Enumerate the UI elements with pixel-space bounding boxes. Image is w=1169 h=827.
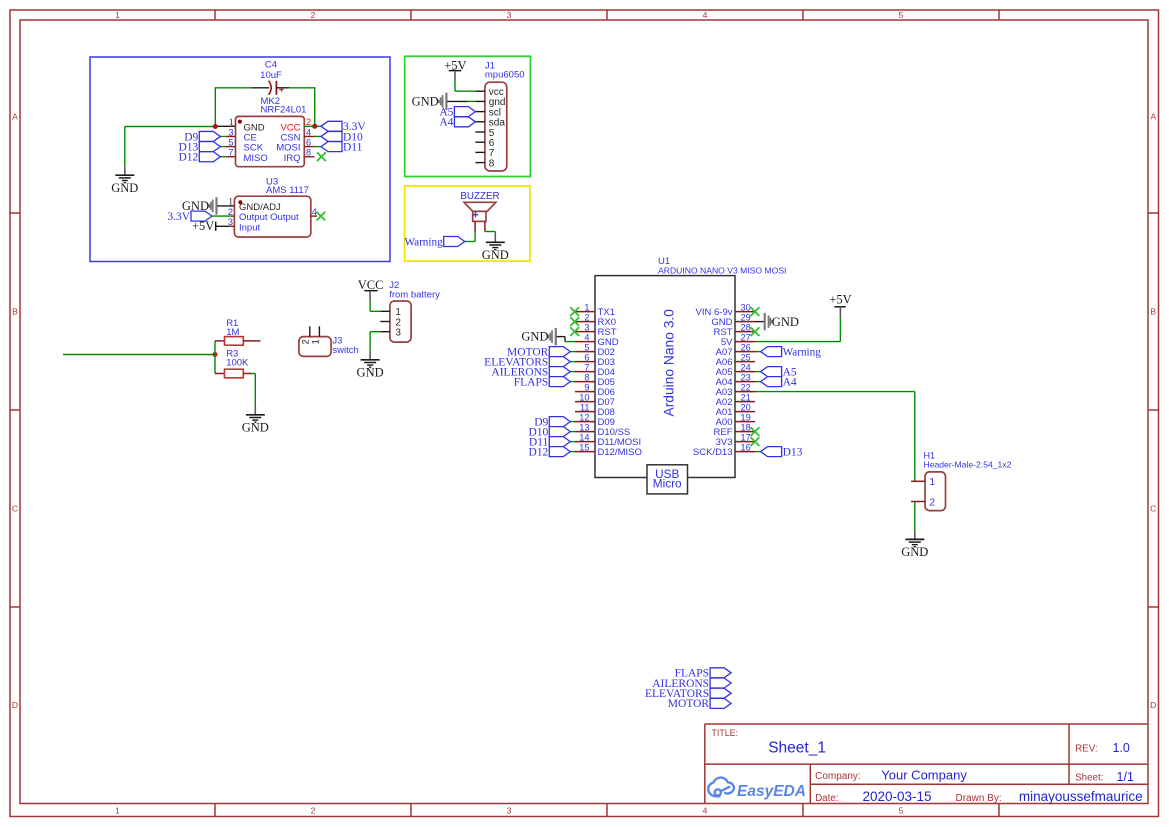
svg-text:BUZZER: BUZZER bbox=[460, 191, 499, 202]
svg-text:Drawn By:: Drawn By: bbox=[956, 793, 1002, 804]
svg-text:GND: GND bbox=[357, 365, 384, 379]
svg-text:1: 1 bbox=[311, 339, 321, 344]
svg-text:+5V: +5V bbox=[192, 219, 214, 233]
net flag FLAPS (floating) bbox=[710, 668, 731, 678]
group box radio module (blue) bbox=[90, 57, 390, 262]
svg-text:8: 8 bbox=[584, 373, 589, 383]
svg-text:12: 12 bbox=[579, 413, 589, 423]
svg-text:D12: D12 bbox=[528, 446, 548, 458]
svg-text:11: 11 bbox=[580, 403, 590, 413]
svg-text:Arduino Nano 3.0: Arduino Nano 3.0 bbox=[662, 309, 677, 417]
wire elevator input bbox=[63, 354, 215, 356]
module MK2 NRF24L01 body bbox=[236, 116, 305, 166]
svg-text:2: 2 bbox=[306, 117, 311, 127]
svg-text:6: 6 bbox=[306, 137, 311, 147]
svg-text:7: 7 bbox=[584, 363, 589, 373]
svg-text:Sheet_1: Sheet_1 bbox=[768, 739, 826, 756]
U3 pin 1 dot bbox=[238, 200, 242, 204]
wire GND to J1 gnd bbox=[468, 100, 476, 102]
svg-text:1: 1 bbox=[115, 806, 120, 816]
svg-text:mpu6050: mpu6050 bbox=[485, 70, 525, 81]
svg-text:4: 4 bbox=[584, 333, 589, 343]
MK2 pin 6 stub bbox=[304, 146, 314, 148]
svg-text:A4: A4 bbox=[783, 376, 797, 388]
svg-text:26: 26 bbox=[741, 343, 751, 353]
net flag 3.3V (MK2) bbox=[321, 121, 342, 131]
svg-text:5: 5 bbox=[899, 10, 904, 20]
net flag D9 (U1) bbox=[570, 421, 575, 423]
wire 3.3V to U3 pin2 bbox=[212, 215, 231, 217]
svg-text:29: 29 bbox=[741, 313, 751, 323]
power flag GND at U1 pin 4 bbox=[555, 328, 557, 345]
svg-text:ARDUINO NANO V3 MISO MOSI: ARDUINO NANO V3 MISO MOSI bbox=[658, 265, 786, 275]
svg-text:1.0: 1.0 bbox=[1113, 741, 1130, 755]
svg-text:1: 1 bbox=[115, 10, 120, 20]
resistor R3 bbox=[214, 355, 216, 374]
svg-text:GND: GND bbox=[901, 545, 928, 559]
svg-text:D12/MISO: D12/MISO bbox=[598, 447, 642, 458]
wire R3 to GND bbox=[251, 373, 255, 375]
MK2 pin 7 stub bbox=[225, 156, 235, 158]
svg-text:1: 1 bbox=[584, 303, 589, 313]
svg-text:4: 4 bbox=[312, 207, 317, 217]
svg-text:3: 3 bbox=[395, 328, 401, 339]
svg-text:D12: D12 bbox=[178, 152, 198, 164]
svg-text:3.3V: 3.3V bbox=[167, 211, 190, 223]
MK2 pin 1 dot bbox=[238, 120, 242, 124]
net flag Warning (buzzer) bbox=[444, 237, 465, 247]
no-connect X U1 pin 28 bbox=[751, 327, 760, 336]
wire J2 pin3 to GND bbox=[370, 331, 380, 333]
net flag Warning (U1) bbox=[755, 351, 761, 353]
connector J1 mpu6050 body bbox=[485, 82, 507, 171]
svg-text:10: 10 bbox=[579, 393, 589, 403]
svg-text:REV:: REV: bbox=[1075, 744, 1098, 755]
svg-text:4: 4 bbox=[703, 10, 708, 20]
svg-text:8: 8 bbox=[489, 158, 495, 169]
ground GND (R3) bbox=[254, 406, 256, 415]
svg-text:Company:: Company: bbox=[815, 771, 861, 782]
svg-text:switch: switch bbox=[332, 345, 358, 356]
svg-text:13: 13 bbox=[579, 423, 589, 433]
net flag FLAPS bbox=[570, 381, 575, 383]
net flag D9 bbox=[199, 131, 220, 141]
svg-text:SCK/D13: SCK/D13 bbox=[693, 447, 733, 458]
svg-text:Date:: Date: bbox=[815, 793, 838, 804]
svg-text:AMS 1117: AMS 1117 bbox=[266, 185, 309, 196]
MK2 pin 5 stub bbox=[225, 146, 235, 148]
svg-text:GND: GND bbox=[521, 329, 548, 343]
H1 pin stubs bbox=[911, 480, 925, 482]
net flag MOTOR (floating) bbox=[710, 698, 731, 708]
junction at MK2 pin1 bbox=[213, 124, 218, 129]
svg-text:17: 17 bbox=[741, 433, 751, 443]
svg-text:1: 1 bbox=[930, 477, 936, 488]
svg-text:25: 25 bbox=[741, 353, 751, 363]
svg-text:2: 2 bbox=[584, 313, 589, 323]
wire Warning to buzzer + bbox=[474, 232, 476, 242]
power flag GND at J1 gnd bbox=[445, 93, 447, 110]
capacitor C4 bbox=[252, 87, 269, 89]
svg-text:B: B bbox=[12, 307, 18, 317]
net flag AILERONS (floating) bbox=[710, 678, 731, 688]
connector J2 body bbox=[390, 301, 411, 342]
net flag A5 (J1 scl) bbox=[454, 107, 475, 117]
svg-text:100K: 100K bbox=[226, 358, 249, 369]
svg-text:18: 18 bbox=[741, 423, 751, 433]
svg-text:Input: Input bbox=[239, 222, 260, 233]
svg-text:23: 23 bbox=[741, 373, 751, 383]
title block frame bbox=[705, 724, 1148, 804]
svg-text:from battery: from battery bbox=[389, 290, 440, 301]
no-connect X on U3 pin 4 bbox=[317, 212, 326, 221]
svg-text:NRF24L01: NRF24L01 bbox=[261, 104, 307, 115]
wire C4 left to pin1 junction bbox=[215, 87, 252, 89]
svg-text:5: 5 bbox=[899, 806, 904, 816]
net flag D10 (U1) bbox=[570, 431, 575, 433]
svg-text:minayoussefmaurice: minayoussefmaurice bbox=[1019, 789, 1143, 804]
net flag D11 (U1) bbox=[570, 441, 575, 443]
svg-text:30: 30 bbox=[741, 303, 751, 313]
svg-text:10uF: 10uF bbox=[260, 70, 282, 81]
J1 pin stubs bbox=[475, 90, 485, 92]
MK2 pin 2 wire (VCC) bbox=[304, 125, 321, 127]
net flag D12 (U1) bbox=[570, 451, 575, 453]
buzzer pin stubs bbox=[474, 221, 476, 231]
net flag D12 bbox=[199, 152, 220, 162]
svg-text:Warning: Warning bbox=[783, 346, 822, 358]
svg-text:Sheet:: Sheet: bbox=[1075, 773, 1103, 784]
J2 pin stubs bbox=[380, 310, 390, 312]
MK2 pin 4 stub bbox=[304, 135, 314, 137]
svg-text:1: 1 bbox=[229, 117, 234, 127]
svg-text:B: B bbox=[1150, 307, 1156, 317]
svg-text:3: 3 bbox=[507, 806, 512, 816]
svg-text:D: D bbox=[12, 700, 18, 710]
U3 pin 4 stub bbox=[311, 215, 317, 217]
svg-text:2020-03-15: 2020-03-15 bbox=[863, 789, 932, 804]
buzzer LS1 speaker symbol bbox=[464, 202, 496, 211]
svg-text:2: 2 bbox=[311, 10, 316, 20]
net flag A4 (U1) bbox=[755, 381, 761, 383]
svg-text:GND: GND bbox=[242, 420, 269, 434]
net flag ELEVATORS bbox=[570, 361, 575, 363]
svg-text:5: 5 bbox=[584, 343, 589, 353]
net flag 3.3V at U3 pin 2 bbox=[191, 211, 212, 221]
svg-text:MOTOR: MOTOR bbox=[668, 698, 710, 710]
svg-text:15: 15 bbox=[579, 443, 589, 453]
switch J3 body bbox=[299, 337, 331, 357]
svg-text:D11: D11 bbox=[343, 141, 363, 153]
net flag A4 (J1 sda) bbox=[454, 117, 475, 127]
MK2 pin 3 stub bbox=[225, 135, 235, 137]
wire GND net to MK2 pin1 bbox=[125, 126, 216, 128]
svg-text:GND: GND bbox=[412, 95, 439, 109]
svg-text:GND: GND bbox=[111, 181, 138, 195]
wire VCC to J2 pin1 bbox=[369, 301, 371, 311]
svg-text:28: 28 bbox=[741, 323, 751, 333]
svg-text:2: 2 bbox=[228, 207, 233, 217]
svg-text:5: 5 bbox=[228, 137, 233, 147]
svg-text:TITLE:: TITLE: bbox=[712, 728, 738, 738]
svg-text:GND: GND bbox=[772, 315, 799, 329]
svg-text:19: 19 bbox=[741, 413, 751, 423]
svg-text:C: C bbox=[1150, 504, 1156, 514]
svg-text:FLAPS: FLAPS bbox=[514, 376, 549, 388]
MK2 pin 8 stub bbox=[304, 156, 314, 158]
net flag D13 (U1) bbox=[755, 451, 761, 453]
wire C4 right to VCC junction bbox=[289, 87, 314, 89]
svg-text:16: 16 bbox=[741, 443, 751, 453]
svg-text:3: 3 bbox=[584, 323, 589, 333]
net flag D11 bbox=[321, 142, 342, 152]
net flag MOTOR bbox=[570, 351, 575, 353]
svg-text:A: A bbox=[1150, 112, 1156, 122]
junction at MK2 pin2 bbox=[312, 124, 317, 129]
power flag GND at U1 pin 29 bbox=[755, 321, 764, 323]
svg-text:C: C bbox=[12, 504, 18, 514]
no-connect X U1 pin 17 bbox=[751, 437, 760, 446]
resistor R1 bbox=[214, 341, 216, 355]
ground GND (H1) bbox=[914, 531, 916, 540]
mcu U1 Arduino Nano body bbox=[595, 276, 735, 478]
net flag A5 (U1) bbox=[755, 371, 761, 373]
svg-text:20: 20 bbox=[741, 403, 751, 413]
ground GND (radio module) bbox=[124, 166, 126, 175]
no-connect X U1 pin 18 bbox=[751, 427, 760, 436]
svg-text:A: A bbox=[12, 112, 18, 122]
group box buzzer (yellow) bbox=[405, 186, 530, 261]
svg-text:D13: D13 bbox=[783, 446, 803, 458]
svg-text:IRQ: IRQ bbox=[284, 153, 301, 164]
MK2 pin 1 wire (GND) bbox=[215, 125, 235, 127]
wire U1 A03 to H1 bbox=[755, 391, 915, 393]
net flag D13 bbox=[199, 142, 220, 152]
net flag ELEVATORS (floating) bbox=[710, 688, 731, 698]
svg-text:2: 2 bbox=[311, 806, 316, 816]
wire H1 pin2 to GND bbox=[914, 502, 916, 531]
net flag AILERONS bbox=[570, 371, 575, 373]
no-connect X U1 pins 1-3 bbox=[570, 307, 579, 316]
group box mpu6050 (green) bbox=[405, 56, 531, 176]
U1 left pin stubs bbox=[575, 311, 595, 313]
no-connect X on MK2 pin 8 bbox=[317, 152, 326, 161]
svg-text:MISO: MISO bbox=[244, 153, 268, 164]
power flag GND at U3 pin 1 bbox=[215, 197, 217, 214]
svg-text:+5V: +5V bbox=[829, 292, 851, 306]
no-connect X U1 pin 30 bbox=[751, 307, 760, 316]
svg-text:22: 22 bbox=[741, 383, 751, 393]
EasyEDA logo bbox=[708, 778, 734, 797]
svg-text:D: D bbox=[1150, 700, 1156, 710]
J3 pin stubs bbox=[309, 326, 311, 336]
svg-text:14: 14 bbox=[579, 433, 589, 443]
svg-text:Micro: Micro bbox=[653, 477, 682, 491]
header H1 body bbox=[925, 472, 946, 511]
U1 USB box bbox=[647, 465, 688, 494]
svg-text:2: 2 bbox=[301, 339, 311, 344]
svg-text:Header-Male-2.54_1x2: Header-Male-2.54_1x2 bbox=[924, 459, 1012, 469]
svg-text:Warning: Warning bbox=[404, 236, 443, 248]
wire U1 5V to +5V bbox=[839, 317, 841, 342]
svg-text:GND: GND bbox=[482, 248, 509, 262]
svg-text:21: 21 bbox=[741, 393, 751, 403]
svg-text:6: 6 bbox=[584, 353, 589, 363]
wire +5V to J1 vcc bbox=[454, 80, 456, 91]
svg-text:EasyEDA: EasyEDA bbox=[737, 783, 806, 800]
wire buzzer - to GND bbox=[485, 231, 495, 233]
net flag D10 bbox=[321, 131, 342, 141]
svg-text:24: 24 bbox=[741, 363, 751, 373]
wire GND to U1 pin 4 bbox=[565, 341, 575, 343]
svg-text:Your Company: Your Company bbox=[881, 768, 967, 783]
svg-text:2: 2 bbox=[930, 497, 936, 508]
ground GND (J2) bbox=[369, 351, 371, 360]
svg-text:3: 3 bbox=[507, 10, 512, 20]
svg-text:27: 27 bbox=[741, 333, 751, 343]
svg-text:4: 4 bbox=[703, 806, 708, 816]
svg-text:A4: A4 bbox=[439, 117, 453, 129]
junction divider bbox=[213, 352, 218, 357]
svg-text:9: 9 bbox=[584, 383, 589, 393]
svg-text:1/1: 1/1 bbox=[1117, 770, 1134, 784]
regulator U3 AMS1117 body bbox=[234, 196, 310, 237]
svg-text:VCC: VCC bbox=[358, 278, 384, 292]
ground GND (buzzer) bbox=[494, 234, 496, 243]
U1 right pin stubs bbox=[735, 311, 755, 313]
